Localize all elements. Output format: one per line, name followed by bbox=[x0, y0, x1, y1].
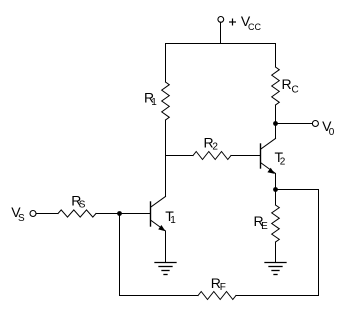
resistor RE bbox=[272, 205, 280, 242]
resistor R1 bbox=[162, 82, 170, 120]
resistor RF bbox=[198, 292, 236, 300]
svg-text:F: F bbox=[220, 282, 226, 293]
svg-text:R: R bbox=[282, 76, 292, 92]
svg-text:2: 2 bbox=[280, 157, 286, 168]
svg-text:S: S bbox=[18, 213, 25, 224]
wire feedback right riser bbox=[318, 190, 320, 296]
V0 terminal circle bbox=[312, 121, 318, 127]
node dot T2 emitter junction bbox=[273, 187, 278, 192]
transistor T1 emitter diagonal bbox=[151, 220, 165, 230]
wire RC bottom to collector node bbox=[275, 105, 277, 124]
Vs terminal circle bbox=[30, 211, 36, 217]
transistor T2 bar bbox=[260, 144, 262, 168]
transistor T2 emitter diagonal bbox=[261, 163, 275, 173]
wire left drop to R1 bbox=[165, 44, 167, 83]
wire bottom left segment bbox=[120, 295, 199, 297]
wire RE bottom to ground bbox=[275, 242, 277, 263]
wire bottom right segment bbox=[236, 295, 319, 297]
transistor T1 collector diagonal bbox=[151, 197, 166, 208]
wire output node to V0 terminal bbox=[276, 123, 313, 125]
svg-text:E: E bbox=[261, 221, 268, 232]
ground right symbol bbox=[265, 263, 286, 275]
svg-text:2: 2 bbox=[212, 141, 218, 152]
wire R2 left segment bbox=[166, 155, 194, 157]
wire feedback left drop from input node bbox=[119, 214, 121, 296]
svg-text:CC: CC bbox=[248, 22, 261, 32]
wire emitter node to feedback riser bbox=[276, 189, 319, 191]
svg-text:C: C bbox=[292, 85, 299, 96]
transistor T2 emitter arrow bbox=[267, 168, 274, 174]
wire R2 right to T2 base bbox=[231, 155, 261, 157]
wire RC top bbox=[275, 44, 277, 68]
wire top rail bbox=[166, 43, 276, 45]
resistor R2 bbox=[193, 152, 231, 160]
transistor T1 emitter arrow bbox=[158, 225, 165, 231]
transistor T2 collector diagonal bbox=[261, 139, 276, 150]
label + Vcc bbox=[229, 19, 236, 26]
wire R1 bottom to T1 collector node bbox=[165, 120, 167, 197]
wire Rs to T1 base bbox=[96, 213, 151, 215]
Vcc terminal circle bbox=[218, 17, 224, 23]
wire T2 emitter drop bbox=[275, 174, 277, 206]
svg-text:S: S bbox=[79, 199, 86, 210]
wire Vs to Rs bbox=[36, 213, 58, 215]
wire Vcc stem bbox=[220, 22, 222, 43]
wire T1 emitter drop bbox=[165, 231, 167, 263]
resistor RC bbox=[272, 67, 280, 105]
svg-text:1: 1 bbox=[151, 97, 157, 108]
ground left symbol bbox=[155, 263, 176, 275]
node dot output collector junction bbox=[273, 121, 278, 126]
svg-text:0: 0 bbox=[329, 127, 335, 138]
wire T2 collector riser bbox=[275, 124, 277, 139]
transistor T1 bar bbox=[150, 202, 152, 226]
node dot T1 base input junction bbox=[117, 211, 122, 216]
resistor RS bbox=[58, 210, 96, 217]
svg-text:1: 1 bbox=[170, 215, 176, 226]
